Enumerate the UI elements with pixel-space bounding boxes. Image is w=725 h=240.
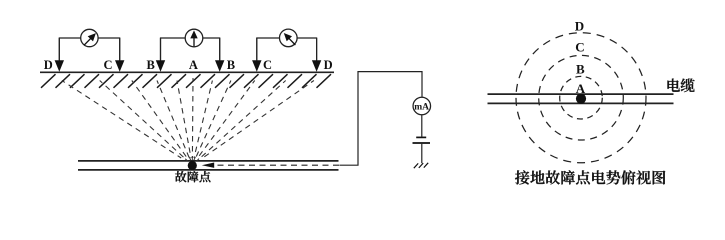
caption 接地故障点电势俯视图 bbox=[515, 170, 665, 184]
wire from cable conductor up to test circuit bbox=[339, 72, 422, 166]
needle of G1 (deflected NE) bbox=[84, 36, 93, 45]
fault point label 故障点 bbox=[175, 171, 210, 182]
needle of G2 (vertical) bbox=[193, 34, 195, 46]
needle of G3 (deflected NW) bbox=[287, 36, 296, 45]
battery long plate bbox=[413, 142, 431, 144]
probe electrode arrowhead at x=316.6 bbox=[312, 60, 321, 72]
plan-view cable lower line bbox=[488, 102, 674, 104]
milliammeter mA bbox=[413, 97, 431, 115]
wire battery to earth bbox=[421, 144, 423, 163]
svg-text:D: D bbox=[575, 19, 584, 34]
svg-text:A: A bbox=[576, 81, 586, 96]
probe electrode wire at x=59.3 bbox=[58, 38, 60, 61]
probe electrode wire at x=119.7 bbox=[119, 38, 121, 61]
svg-text:D: D bbox=[324, 58, 333, 72]
converging tail ticks at fault dot bbox=[185, 156, 199, 161]
svg-text:B: B bbox=[576, 62, 585, 77]
svg-text:mA: mA bbox=[414, 103, 429, 113]
probe electrode arrowhead at x=256.8 bbox=[252, 60, 261, 72]
wire mA to battery bbox=[421, 115, 423, 137]
svg-text:C: C bbox=[575, 40, 584, 55]
svg-text:D: D bbox=[44, 58, 53, 72]
wire meter G2 right bbox=[203, 38, 220, 60]
probe electrode arrowhead at x=219.7 bbox=[215, 60, 224, 72]
probe electrode arrowhead at x=119.7 bbox=[115, 60, 124, 72]
probe electrode wire at x=316.6 bbox=[316, 38, 318, 61]
equipotential circle D (dashed) bbox=[516, 33, 646, 163]
probe electrode wire at x=160.5 bbox=[160, 38, 162, 61]
wire meter G2 left bbox=[161, 38, 186, 60]
svg-text:C: C bbox=[103, 58, 112, 72]
probe electrode arrowhead at x=59.3 bbox=[55, 60, 64, 72]
equipotential circle B (dashed) bbox=[560, 76, 603, 119]
svg-text:C: C bbox=[263, 58, 272, 72]
fault point dot (plan view) bbox=[576, 94, 586, 104]
buried cable upper line bbox=[78, 160, 339, 162]
wire meter G3 left bbox=[257, 38, 280, 60]
ground hatching bbox=[41, 74, 331, 88]
fault point dot bbox=[188, 161, 197, 170]
ground surface line bbox=[40, 71, 334, 73]
dashed current arrow in cable bbox=[214, 164, 340, 166]
equipotential circle C (dashed) bbox=[539, 55, 624, 140]
probe electrode arrowhead at x=160.5 bbox=[156, 60, 165, 72]
plan-view cable upper line bbox=[488, 93, 674, 95]
battery short plate bbox=[416, 136, 426, 138]
svg-text:A: A bbox=[189, 58, 198, 72]
svg-text:B: B bbox=[227, 58, 235, 72]
svg-text:B: B bbox=[147, 58, 155, 72]
buried cable lower line bbox=[78, 169, 339, 171]
galvanometer G1 bbox=[81, 29, 98, 46]
galvanometer G3 bbox=[280, 29, 298, 47]
wire meter G1 left bbox=[59, 38, 80, 60]
probe electrode wire at x=256.8 bbox=[256, 38, 258, 61]
wire meter G1 right bbox=[98, 38, 120, 60]
cable label 电缆 bbox=[668, 79, 695, 93]
earth ground symbol bbox=[414, 163, 428, 168]
galvanometer G2 bbox=[185, 29, 203, 47]
probe electrode wire at x=219.7 bbox=[219, 38, 221, 61]
equipotential dashed fan lines from fault point bbox=[62, 78, 314, 158]
wire meter G3 right bbox=[297, 38, 316, 60]
